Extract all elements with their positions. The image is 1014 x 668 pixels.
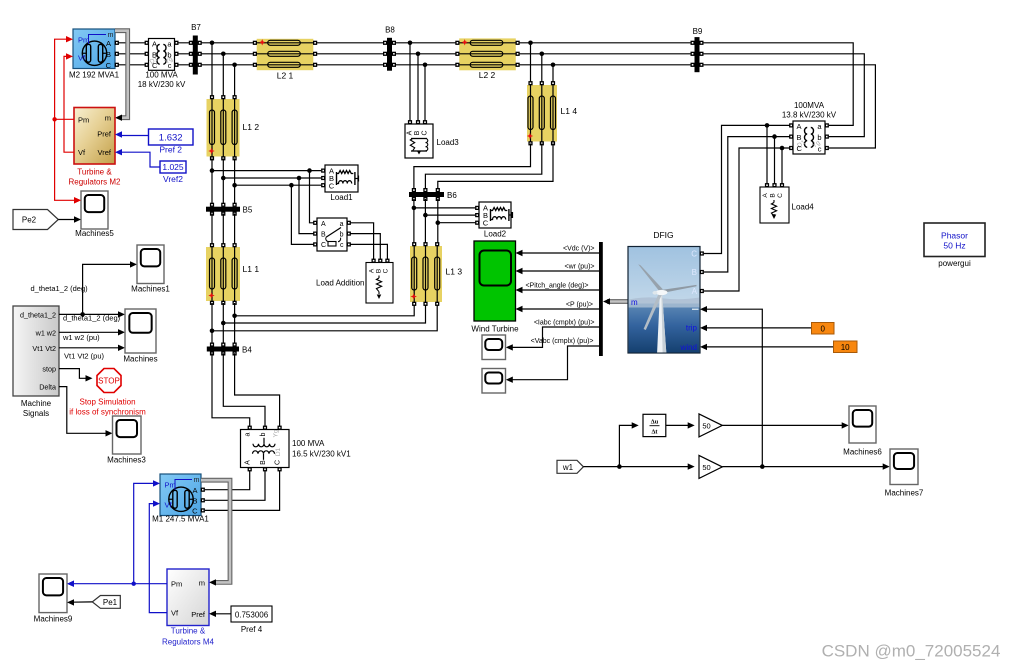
svg-text:0.753006: 0.753006 [235, 611, 269, 620]
svg-text:0: 0 [820, 324, 825, 333]
svg-text:Stop Simulation: Stop Simulation [79, 398, 135, 407]
svg-text:c: c [818, 145, 822, 154]
svg-text:C: C [275, 460, 282, 465]
svg-text:wind: wind [680, 343, 697, 352]
svg-text:C: C [329, 182, 335, 191]
svg-text:B: B [152, 51, 157, 60]
svg-text:Signals: Signals [23, 409, 49, 418]
svg-text:<Vdc (V)>: <Vdc (V)> [563, 246, 595, 253]
svg-text:C: C [106, 61, 112, 70]
svg-text:B: B [375, 269, 382, 273]
svg-text:Vf: Vf [165, 501, 173, 510]
svg-text:b: b [167, 51, 171, 60]
svg-text:Phasor: Phasor [941, 231, 968, 241]
svg-text:CSDN @m0_72005524: CSDN @m0_72005524 [822, 642, 1001, 661]
svg-text:B: B [770, 193, 777, 197]
svg-text:D1: D1 [275, 447, 282, 456]
svg-text:B: B [797, 133, 802, 142]
svg-text:m: m [631, 298, 638, 307]
svg-text:C: C [777, 193, 784, 198]
svg-text:Pm: Pm [171, 580, 182, 589]
svg-text:C: C [382, 268, 389, 273]
svg-text:A: A [797, 122, 802, 131]
svg-text:a: a [245, 432, 252, 436]
svg-text:Pm: Pm [165, 481, 176, 490]
svg-text:<P (pu)>: <P (pu)> [566, 302, 593, 309]
svg-text:13.8 kV/230 kV: 13.8 kV/230 kV [782, 111, 837, 120]
svg-text:Vf: Vf [171, 609, 179, 618]
svg-text:B4: B4 [242, 346, 252, 355]
svg-text:Vref: Vref [98, 148, 112, 157]
svg-text:Turbine &: Turbine & [77, 168, 112, 177]
svg-text:Load2: Load2 [484, 230, 507, 239]
svg-text:Machines6: Machines6 [843, 448, 882, 457]
svg-text:Vf: Vf [78, 53, 86, 62]
svg-text:A: A [407, 130, 414, 135]
svg-text:C: C [152, 61, 158, 70]
svg-text:L1 4: L1 4 [561, 106, 578, 116]
svg-text:<Pitch_angle (deg)>: <Pitch_angle (deg)> [525, 283, 588, 290]
svg-text:m: m [105, 114, 111, 123]
svg-text:b: b [817, 133, 821, 142]
svg-text:16.5 kV/230 kV1: 16.5 kV/230 kV1 [292, 450, 351, 459]
svg-text:B6: B6 [447, 191, 457, 200]
svg-text:m: m [194, 477, 200, 484]
svg-text:STOP: STOP [98, 377, 120, 386]
svg-text:C: C [797, 144, 803, 153]
svg-text:A: A [245, 460, 252, 465]
svg-text:A: A [106, 39, 111, 48]
svg-text:Pref 2: Pref 2 [159, 144, 182, 154]
svg-text:w1 w2: w1 w2 [35, 328, 56, 337]
svg-text:1.632: 1.632 [159, 133, 183, 144]
svg-text:Delta: Delta [39, 383, 56, 392]
svg-text:Wind Turbine: Wind Turbine [471, 325, 519, 334]
svg-text:d_theta1_2: d_theta1_2 [20, 310, 56, 319]
svg-text:Load Addition: Load Addition [316, 279, 365, 288]
svg-text:<Iabc (cmplx) (pu)>: <Iabc (cmplx) (pu)> [534, 320, 595, 327]
svg-text:w1: w1 [562, 463, 574, 472]
svg-text:d_theta1_2 (deg): d_theta1_2 (deg) [63, 314, 121, 323]
svg-text:Turbine &: Turbine & [171, 627, 206, 636]
svg-text:Vt1 Vt2: Vt1 Vt2 [32, 344, 56, 353]
svg-text:Machine: Machine [21, 399, 52, 408]
svg-text:C: C [422, 130, 429, 135]
svg-text:w1 w2 (pu): w1 w2 (pu) [62, 333, 100, 342]
svg-text:Machines9: Machines9 [34, 615, 73, 624]
svg-text:B5: B5 [243, 206, 253, 215]
svg-text:A: A [762, 193, 769, 198]
svg-text:Machines1: Machines1 [131, 285, 170, 294]
svg-text:50 Hz: 50 Hz [943, 241, 965, 251]
svg-text:B: B [692, 268, 697, 277]
svg-text:powergui: powergui [938, 259, 971, 268]
svg-text:Vf: Vf [78, 148, 86, 157]
svg-text:L1 2: L1 2 [243, 122, 260, 132]
svg-text:100MVA: 100MVA [794, 101, 825, 110]
svg-text:B9: B9 [693, 27, 703, 36]
svg-text:Pref: Pref [191, 610, 206, 619]
svg-text:B: B [106, 50, 111, 59]
svg-text:<Vabc (cmplx) (pu)>: <Vabc (cmplx) (pu)> [531, 338, 594, 345]
svg-text:m: m [108, 32, 114, 39]
svg-text:B: B [260, 460, 267, 465]
svg-text:A: A [692, 287, 698, 296]
svg-text:Load4: Load4 [792, 203, 815, 212]
svg-text:L1 1: L1 1 [243, 264, 260, 274]
svg-text:DFIG: DFIG [653, 230, 673, 240]
svg-text:L2 1: L2 1 [277, 71, 294, 81]
svg-text:Pref 4: Pref 4 [241, 625, 263, 634]
svg-text:Machines3: Machines3 [107, 456, 146, 465]
svg-text:B8: B8 [385, 26, 395, 35]
svg-text:Vref2: Vref2 [163, 174, 183, 184]
svg-text:Yg: Yg [273, 429, 280, 437]
svg-text:A: A [321, 221, 326, 228]
svg-text:b: b [340, 231, 344, 238]
svg-text:Vt1 Vt2 (pu): Vt1 Vt2 (pu) [64, 351, 105, 360]
svg-text:a: a [340, 221, 344, 228]
svg-text:m: m [199, 578, 205, 587]
svg-text:Δt: Δt [651, 429, 658, 436]
svg-text:M2 192 MVA1: M2 192 MVA1 [69, 71, 120, 80]
svg-text:50: 50 [702, 421, 710, 430]
svg-text:B7: B7 [191, 23, 201, 32]
svg-text:50: 50 [702, 463, 710, 472]
svg-text:Load1: Load1 [330, 193, 353, 202]
svg-text:trip: trip [686, 324, 698, 333]
svg-text:<wr (pu)>: <wr (pu)> [565, 264, 595, 271]
svg-text:Pm: Pm [78, 115, 89, 124]
svg-text:B: B [414, 130, 421, 135]
svg-text:Regulators M4: Regulators M4 [162, 638, 215, 647]
svg-text:C: C [691, 250, 697, 259]
svg-text:100 MVA: 100 MVA [292, 439, 325, 448]
svg-text:100 MVA: 100 MVA [145, 71, 178, 80]
svg-text:c: c [340, 242, 344, 249]
svg-text:Pe2: Pe2 [22, 216, 37, 225]
svg-text:A: A [152, 40, 157, 49]
svg-text:d_theta1_2 (deg): d_theta1_2 (deg) [31, 284, 89, 293]
svg-text:Pref: Pref [97, 130, 112, 139]
svg-text:Load3: Load3 [437, 138, 460, 147]
svg-text:Regulators M2: Regulators M2 [68, 178, 121, 187]
svg-text:10: 10 [841, 343, 850, 352]
svg-text:B: B [321, 231, 326, 238]
svg-text:Machines5: Machines5 [75, 229, 114, 238]
svg-text:Δu: Δu [651, 419, 659, 426]
svg-text:Machines7: Machines7 [885, 489, 924, 498]
svg-text:M1 247.5 MVA1: M1 247.5 MVA1 [152, 515, 209, 524]
svg-text:L1 3: L1 3 [446, 267, 463, 277]
svg-text:c: c [168, 61, 172, 70]
svg-text:A: A [192, 486, 197, 495]
svg-text:Pe1: Pe1 [103, 598, 118, 607]
svg-text:Machines: Machines [123, 355, 157, 364]
svg-text:B: B [192, 496, 197, 505]
svg-text:Pm: Pm [78, 35, 89, 44]
svg-text:18 kV/230 kV: 18 kV/230 kV [138, 80, 186, 89]
svg-text:if loss of synchronism: if loss of synchronism [69, 408, 146, 417]
svg-text:C: C [483, 219, 489, 228]
svg-text:C: C [321, 242, 326, 249]
svg-text:stop: stop [42, 365, 56, 374]
svg-text:L2 2: L2 2 [479, 70, 496, 80]
svg-text:b: b [260, 432, 267, 436]
svg-text:1.025: 1.025 [162, 162, 184, 172]
